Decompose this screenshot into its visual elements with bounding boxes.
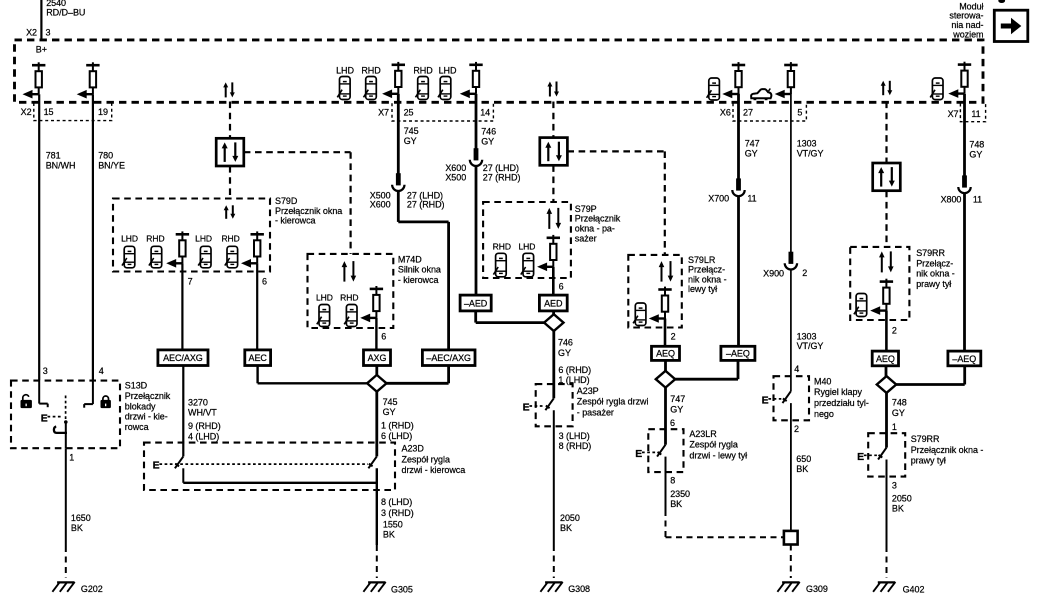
- svg-text:8 (RHD): 8 (RHD): [559, 441, 592, 451]
- svg-text:3: 3: [46, 27, 51, 37]
- svg-text:nik okna -: nik okna -: [688, 274, 727, 284]
- svg-text:E: E: [153, 460, 160, 472]
- svg-text:GY: GY: [383, 407, 396, 417]
- svg-text:lewy tył: lewy tył: [688, 284, 717, 294]
- svg-text:2050: 2050: [892, 494, 912, 504]
- svg-text:drzwi - lewy tył: drzwi - lewy tył: [689, 450, 747, 460]
- svg-text:S79RR: S79RR: [916, 248, 945, 258]
- svg-text:X2: X2: [26, 27, 37, 37]
- svg-text:11: 11: [971, 109, 980, 119]
- svg-text:A23LR: A23LR: [689, 429, 717, 439]
- svg-text:Przełącznik okna: Przełącznik okna: [275, 206, 342, 216]
- svg-text:3: 3: [892, 481, 897, 491]
- svg-text:AEQ: AEQ: [656, 349, 675, 359]
- svg-text:G202: G202: [81, 584, 103, 594]
- svg-text:prawy tył: prawy tył: [911, 456, 946, 466]
- svg-text:4: 4: [99, 366, 104, 376]
- svg-text:GY: GY: [969, 150, 982, 160]
- svg-text:- kierowca: - kierowca: [275, 216, 316, 226]
- svg-text:8 (LHD): 8 (LHD): [381, 497, 412, 507]
- svg-text:AEQ: AEQ: [876, 354, 895, 364]
- svg-text:G305: G305: [391, 584, 413, 594]
- svg-text:–AEQ: –AEQ: [952, 354, 976, 364]
- svg-text:X2: X2: [21, 107, 32, 117]
- svg-text:X500: X500: [445, 173, 466, 183]
- svg-text:X7: X7: [378, 108, 389, 118]
- svg-text:M40: M40: [814, 376, 831, 386]
- svg-text:rowca: rowca: [125, 422, 149, 432]
- svg-text:6: 6: [262, 276, 267, 286]
- svg-text:14: 14: [480, 108, 490, 118]
- svg-text:LHD: LHD: [439, 65, 457, 75]
- svg-text:2: 2: [892, 325, 897, 335]
- svg-text:–AEQ: –AEQ: [726, 349, 750, 359]
- svg-text:BK: BK: [383, 530, 395, 540]
- svg-text:BK: BK: [560, 523, 572, 533]
- svg-text:RHD: RHD: [493, 241, 511, 251]
- svg-text:Silnik okna: Silnik okna: [398, 265, 441, 275]
- svg-text:GY: GY: [745, 149, 758, 159]
- svg-text:G308: G308: [568, 584, 590, 594]
- svg-text:Zespół rygla: Zespół rygla: [689, 440, 737, 450]
- svg-text:RD/D–BU: RD/D–BU: [46, 7, 85, 17]
- svg-text:Przełącz-: Przełącz-: [916, 258, 953, 268]
- svg-text:blokady: blokady: [125, 401, 156, 411]
- svg-text:S79RR: S79RR: [911, 434, 940, 444]
- svg-text:–AEC/AXG: –AEC/AXG: [426, 353, 471, 363]
- svg-text:X900: X900: [763, 269, 784, 279]
- svg-text:E: E: [857, 451, 864, 463]
- svg-text:AXG: AXG: [368, 353, 387, 363]
- svg-text:AEC: AEC: [249, 353, 268, 363]
- svg-text:VT/GY: VT/GY: [797, 341, 824, 351]
- svg-text:nego: nego: [814, 409, 834, 419]
- svg-text:A23D: A23D: [402, 444, 425, 454]
- svg-text:GY: GY: [404, 136, 417, 146]
- svg-text:27: 27: [743, 108, 753, 118]
- svg-text:3270: 3270: [188, 397, 208, 407]
- svg-text:X6: X6: [720, 108, 731, 118]
- svg-text:6: 6: [670, 418, 675, 428]
- svg-text:BK: BK: [796, 464, 808, 474]
- svg-text:11: 11: [747, 194, 756, 204]
- svg-text:781: 781: [46, 150, 61, 160]
- svg-text:747: 747: [745, 139, 760, 149]
- svg-text:4 (LHD): 4 (LHD): [188, 432, 219, 442]
- svg-text:X7: X7: [948, 109, 959, 119]
- svg-text:prawy tył: prawy tył: [916, 279, 951, 289]
- svg-text:5: 5: [797, 108, 802, 118]
- svg-text:Przełącznik: Przełącznik: [575, 214, 621, 224]
- svg-text:GY: GY: [892, 408, 905, 418]
- svg-text:drzwi - kierowca: drzwi - kierowca: [402, 465, 466, 475]
- svg-text:6 (LHD): 6 (LHD): [381, 431, 412, 441]
- svg-text:6 (RHD): 6 (RHD): [558, 365, 591, 375]
- svg-text:X600: X600: [370, 200, 391, 210]
- svg-text:2: 2: [802, 268, 807, 278]
- svg-text:1650: 1650: [71, 513, 91, 523]
- svg-text:2050: 2050: [560, 513, 580, 523]
- svg-text:LHD: LHD: [121, 233, 138, 243]
- svg-text:BK: BK: [670, 499, 682, 509]
- svg-text:25: 25: [404, 108, 414, 118]
- svg-text:746: 746: [481, 127, 496, 137]
- svg-text:RHD: RHD: [413, 65, 433, 75]
- svg-text:650: 650: [796, 454, 811, 464]
- svg-text:E: E: [635, 448, 642, 460]
- svg-text:Przełącznik: Przełącznik: [125, 391, 171, 401]
- svg-text:drzwi - kie-: drzwi - kie-: [125, 412, 168, 422]
- svg-text:VT/GY: VT/GY: [797, 149, 824, 159]
- svg-text:BN/WH: BN/WH: [46, 161, 76, 171]
- svg-text:7: 7: [188, 276, 193, 286]
- svg-text:X800: X800: [941, 194, 962, 204]
- svg-text:3: 3: [43, 366, 48, 376]
- svg-text:przedziału tyl-: przedziału tyl-: [814, 398, 869, 408]
- svg-text:LHD: LHD: [195, 233, 212, 243]
- svg-text:S79LR: S79LR: [688, 255, 716, 265]
- svg-text:11: 11: [973, 194, 982, 204]
- svg-text:–AED: –AED: [464, 298, 488, 308]
- svg-text:- pasażer: - pasażer: [577, 407, 614, 417]
- svg-text:4: 4: [794, 364, 799, 374]
- svg-text:AEC/AXG: AEC/AXG: [163, 353, 203, 363]
- svg-text:S79D: S79D: [275, 196, 298, 206]
- svg-text:GY: GY: [670, 404, 683, 414]
- svg-text:6: 6: [559, 281, 564, 291]
- svg-text:GY: GY: [558, 348, 571, 358]
- svg-text:747: 747: [670, 394, 685, 404]
- svg-text:E: E: [762, 395, 769, 407]
- svg-text:LHD: LHD: [518, 241, 535, 251]
- svg-text:LHD: LHD: [316, 293, 333, 303]
- svg-text:RHD: RHD: [221, 233, 239, 243]
- svg-text:1: 1: [69, 452, 74, 462]
- svg-text:Zespół rygla drzwi: Zespół rygla drzwi: [577, 397, 649, 407]
- svg-text:WH/VT: WH/VT: [188, 408, 217, 418]
- svg-text:Zespół rygla: Zespół rygla: [402, 454, 450, 464]
- svg-text:19: 19: [98, 107, 108, 117]
- svg-text:X700: X700: [708, 194, 729, 204]
- svg-text:3 (RHD): 3 (RHD): [381, 508, 414, 518]
- svg-text:- kierowca: - kierowca: [398, 275, 439, 285]
- svg-text:2: 2: [671, 332, 676, 342]
- svg-text:G402: G402: [903, 584, 925, 594]
- svg-text:nik okna -: nik okna -: [916, 269, 955, 279]
- svg-text:27 (RHD): 27 (RHD): [483, 173, 521, 183]
- svg-text:745: 745: [404, 126, 419, 136]
- svg-text:E: E: [523, 402, 530, 414]
- svg-text:BK: BK: [71, 523, 83, 533]
- svg-text:LHD: LHD: [336, 65, 354, 75]
- svg-text:1: 1: [892, 422, 897, 432]
- svg-text:746: 746: [558, 338, 573, 348]
- svg-text:RHD: RHD: [146, 233, 164, 243]
- svg-text:GY: GY: [481, 137, 494, 147]
- svg-text:748: 748: [892, 398, 907, 408]
- svg-text:9 (RHD): 9 (RHD): [188, 421, 221, 431]
- svg-text:okna - pa-: okna - pa-: [575, 224, 615, 234]
- svg-text:RHD: RHD: [361, 65, 381, 75]
- svg-text:Przełącznik okna -: Przełącznik okna -: [911, 445, 984, 455]
- svg-text:15: 15: [44, 107, 54, 117]
- svg-text:6: 6: [381, 332, 386, 342]
- svg-text:B+: B+: [36, 45, 47, 55]
- svg-text:E: E: [41, 413, 48, 425]
- svg-text:G309: G309: [806, 584, 828, 594]
- svg-text:2: 2: [794, 424, 799, 434]
- svg-text:2350: 2350: [670, 489, 690, 499]
- svg-text:Przełącz-: Przełącz-: [688, 265, 725, 275]
- svg-text:M74D: M74D: [398, 254, 422, 264]
- svg-text:BK: BK: [892, 504, 904, 514]
- svg-text:3 (LHD): 3 (LHD): [559, 431, 590, 441]
- svg-text:748: 748: [969, 140, 984, 150]
- svg-text:745: 745: [383, 397, 398, 407]
- svg-text:S79P: S79P: [575, 204, 597, 214]
- svg-text:sażer: sażer: [575, 233, 597, 243]
- svg-text:A23P: A23P: [577, 386, 599, 396]
- svg-text:Rygiel klapy: Rygiel klapy: [814, 387, 862, 397]
- svg-text:S13D: S13D: [125, 381, 148, 391]
- svg-text:woziem: woziem: [952, 29, 983, 39]
- svg-text:27 (RHD): 27 (RHD): [407, 200, 445, 210]
- svg-text:AED: AED: [544, 298, 563, 308]
- svg-text:780: 780: [98, 150, 113, 160]
- svg-text:1550: 1550: [383, 519, 403, 529]
- svg-text:1 (RHD): 1 (RHD): [381, 420, 414, 430]
- svg-text:BN/YE: BN/YE: [98, 161, 125, 171]
- svg-text:RHD: RHD: [340, 293, 358, 303]
- svg-text:1303: 1303: [797, 139, 817, 149]
- svg-text:8: 8: [670, 476, 675, 486]
